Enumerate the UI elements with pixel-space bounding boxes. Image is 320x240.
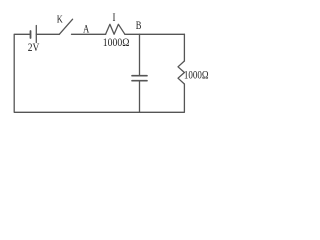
resistor R1 (horizontal 1000 ohm) (106, 24, 125, 34)
svg-text:B: B (136, 18, 142, 32)
battery long plate (35, 26, 37, 43)
wire top right segment (125, 33, 184, 35)
svg-text:1000Ω: 1000Ω (103, 35, 130, 49)
wire battery to switch (36, 33, 59, 35)
svg-text:1000Ω: 1000Ω (184, 67, 209, 81)
wire node B branch upper (139, 34, 141, 75)
resistor R2 (vertical 1000 ohm) (178, 61, 184, 84)
svg-text:A: A (83, 22, 90, 36)
switch K blade (59, 19, 72, 34)
wire outer loop (left vertical, bottom, right vertical) (14, 34, 184, 112)
capacitor C top plate (132, 75, 147, 77)
wire node A segment (72, 33, 106, 35)
svg-text:K: K (57, 15, 63, 26)
wire node B branch lower (139, 81, 141, 112)
svg-text:2V: 2V (28, 40, 40, 54)
svg-text:I: I (113, 11, 116, 24)
wire right vertical top (183, 34, 185, 61)
battery short plate (30, 31, 32, 38)
capacitor C bottom plate (132, 80, 147, 82)
